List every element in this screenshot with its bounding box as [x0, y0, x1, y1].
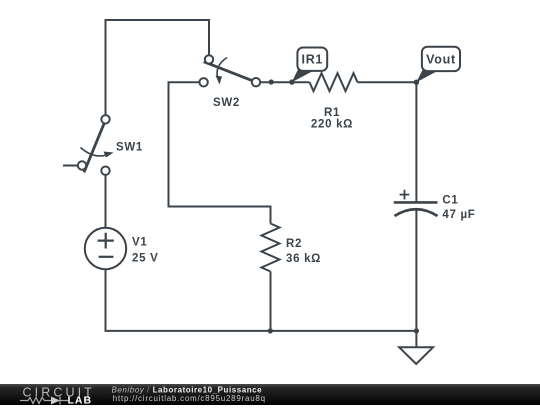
switch SW1 blade: [84, 123, 105, 173]
junction dot at Vout node: [414, 80, 419, 85]
ground symbol: [399, 347, 433, 364]
node Vout flag pointer: [416, 69, 437, 82]
wire Vout node down to C1 top plate: [415, 82, 417, 202]
svg-text:R2: R2: [286, 238, 302, 250]
V1 minus sign: [99, 256, 114, 258]
wire SW1 bottom to V1 top: [105, 175, 107, 228]
junction dot at SW2 output: [269, 79, 274, 84]
wire ground symbol lead: [415, 331, 417, 347]
wire top bus from left riser to SW2 riser: [106, 20, 210, 115]
svg-text:IR1: IR1: [302, 53, 324, 67]
footer bar: [0, 384, 540, 405]
switch SW1 terminal circles: [101, 115, 109, 123]
capacitor C1 plus sign: [400, 190, 410, 200]
svg-text:R1: R1: [324, 107, 340, 119]
junction dot at IR1 node: [289, 79, 294, 84]
SW1 actuation arrow: [81, 148, 109, 156]
junction dot R2/ground bus: [268, 328, 273, 333]
wire SW2 left throw to R2 top (step): [169, 82, 271, 223]
resistor R2 zigzag body: [262, 224, 280, 272]
junction dot C1/ground bus: [414, 328, 419, 333]
capacitor C1 curved bottom plate: [395, 209, 438, 216]
node IR1 flag box: [297, 48, 327, 71]
resistor R1 zigzag body: [310, 73, 358, 91]
svg-text:Vout: Vout: [426, 53, 456, 67]
node IR1 flag pointer: [292, 69, 313, 83]
svg-text:SW2: SW2: [213, 97, 240, 109]
svg-text:36 kΩ: 36 kΩ: [286, 253, 321, 265]
wire C1 bottom plate to ground bus: [415, 209, 417, 331]
svg-text:V1: V1: [132, 237, 147, 249]
svg-text:220 kΩ: 220 kΩ: [311, 119, 353, 131]
wire SW1 throw stub: [63, 165, 78, 167]
svg-text:SW1: SW1: [116, 142, 143, 154]
wire bottom ground bus: [105, 330, 417, 332]
node Vout flag box: [422, 47, 460, 71]
voltage source V1 circle: [85, 228, 126, 269]
wire R2 bottom to ground bus: [270, 272, 272, 331]
wire SW2 right terminal to R1: [260, 81, 309, 83]
svg-text:C1: C1: [442, 194, 458, 206]
svg-text:25 V: 25 V: [132, 253, 158, 265]
logo schematic doodle: [20, 397, 68, 405]
capacitor C1 top plate: [394, 201, 438, 204]
wire R1 right to Vout node: [358, 81, 417, 83]
svg-text:LAB: LAB: [68, 395, 93, 406]
SW2 actuation arrow: [217, 58, 227, 80]
switch SW2 terminal circles: [205, 55, 213, 63]
switch SW2 blade: [204, 62, 254, 82]
svg-text:47 µF: 47 µF: [442, 209, 475, 221]
V1 plus sign: [98, 233, 114, 249]
svg-text:http://circuitlab.com/c895u289: http://circuitlab.com/c895u289rau8q: [113, 394, 266, 403]
wire V1 bottom to ground bus: [105, 269, 107, 331]
